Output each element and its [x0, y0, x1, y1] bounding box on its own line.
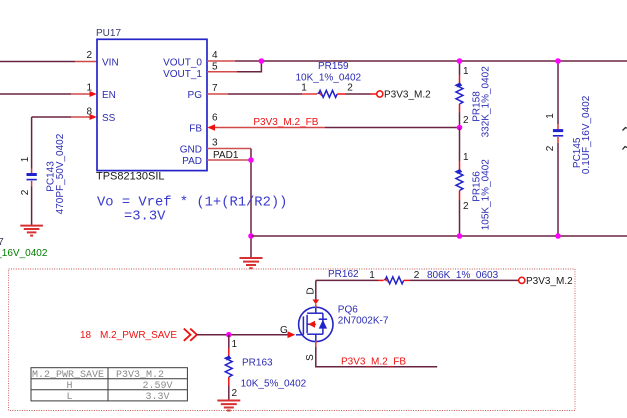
svg-text:3: 3 [212, 138, 218, 149]
wire PR162 to net circle [410, 279, 519, 281]
svg-text:P3V3_M.2: P3V3_M.2 [384, 90, 431, 101]
svg-text:8: 8 [86, 107, 92, 118]
svg-text:806K_1%_0603: 806K_1%_0603 [427, 270, 499, 281]
svg-text:1: 1 [369, 270, 375, 281]
capacitor PC145 [553, 124, 563, 143]
svg-text:Vo = Vref * (1+(R1/R2)): Vo = Vref * (1+(R1/R2)) [97, 195, 287, 211]
svg-text:1: 1 [463, 152, 469, 163]
pin arrow FB pin 6 [207, 124, 215, 131]
svg-text:1: 1 [463, 66, 469, 77]
svg-text:P3V3_M.2: P3V3_M.2 [116, 370, 164, 381]
wire VOUT_1 to rail [237, 61, 261, 72]
resistor PR159 [302, 90, 346, 97]
svg-text:VOUT_1: VOUT_1 [163, 69, 202, 80]
svg-text:10K_1%_0402: 10K_1%_0402 [296, 73, 362, 84]
svg-text:=3.3V: =3.3V [124, 210, 166, 225]
wire gate net [197, 334, 288, 336]
wire FB net [218, 127, 326, 129]
svg-text:L: L [66, 392, 72, 403]
svg-text:2: 2 [86, 50, 92, 61]
pin stub GND pin 3 [207, 148, 251, 150]
svg-text:-7: -7 [0, 237, 4, 248]
wire PR158 top lead [459, 61, 461, 75]
wire PR159 to net stub [346, 93, 371, 95]
svg-text:D: D [306, 287, 317, 294]
svg-text:EN: EN [102, 90, 116, 101]
svg-text:2N7002K-7: 2N7002K-7 [338, 316, 389, 327]
junction bottom rail PR156 [457, 233, 463, 239]
svg-text:M.2_PWR_SAVE: M.2_PWR_SAVE [32, 370, 104, 381]
svg-text:3.3V: 3.3V [145, 392, 169, 403]
svg-text:VOUT_0: VOUT_0 [163, 57, 202, 68]
pin stub PAD [207, 159, 251, 161]
svg-text:2: 2 [20, 189, 31, 195]
wire PR156 bottom to rail [459, 200, 461, 236]
pin arrow EN pin 1 [90, 91, 97, 97]
junction bottom rail at x=251 [248, 233, 254, 239]
svg-text:2: 2 [414, 270, 420, 281]
wire SS vertical down to PC143 [31, 117, 33, 169]
svg-text:1: 1 [86, 83, 92, 94]
svg-text:VIN: VIN [102, 57, 119, 68]
svg-text:SS: SS [102, 113, 116, 124]
svg-text:2: 2 [463, 201, 469, 212]
svg-text:TPS82130SIL: TPS82130SIL [96, 171, 165, 183]
svg-text:470PF_50V_0402: 470PF_50V_0402 [55, 133, 66, 214]
IC U PU17 box [97, 39, 207, 170]
junction gate / PR163 [226, 332, 232, 338]
resistor PR158 [456, 82, 463, 113]
net connector circle P3V3_M.2 [377, 91, 383, 97]
svg-text:2.59V: 2.59V [142, 381, 172, 392]
svg-text:2: 2 [347, 83, 353, 94]
svg-text:PAD1: PAD1 [213, 150, 239, 161]
ground symbol (PR163) [217, 401, 240, 411]
svg-text:GND: GND [180, 144, 202, 155]
junction VOUT_0/VOUT_1 [259, 58, 265, 64]
svg-text:G: G [280, 325, 288, 336]
net connector circle P3V3_M.2 (bottom) [519, 277, 525, 283]
svg-text:1: 1 [20, 156, 31, 162]
wire PR156 top lead [459, 128, 461, 162]
svg-text:S: S [305, 354, 316, 361]
resistor PR162 [378, 277, 410, 284]
truth table [31, 368, 187, 401]
wire PC145 bottom to rail [557, 143, 559, 236]
gate arrow into Q [288, 331, 296, 338]
wire PC143 to ground [31, 187, 33, 226]
svg-text:6: 6 [212, 113, 218, 124]
svg-text:10K_5%_0402: 10K_5%_0402 [241, 379, 307, 390]
svg-text:1: 1 [545, 113, 556, 119]
svg-text:P3V3_M.2_FB: P3V3_M.2_FB [341, 357, 406, 368]
svg-text:18: 18 [80, 330, 92, 341]
svg-text:332K_1%_0402: 332K_1%_0402 [481, 66, 492, 138]
cut-off pin number 1 (right edge) [623, 128, 627, 131]
junction PAD [248, 157, 254, 163]
wire drain to PR162 [316, 279, 378, 281]
svg-text:P3V3_M.2: P3V3_M.2 [526, 276, 573, 287]
pin stub PG pin 7 [207, 93, 228, 95]
pin stub VOUT_0 pin 4 [207, 60, 235, 62]
resistor PR156 [456, 169, 463, 201]
wire PR163 bottom to ground [228, 386, 230, 401]
svg-text:PR163: PR163 [242, 358, 273, 369]
svg-text:PU17: PU17 [96, 28, 121, 39]
junction top rail PC145 [555, 58, 561, 64]
svg-text:PQ6: PQ6 [338, 304, 358, 315]
capacitor C PC143 [27, 169, 37, 187]
junction FB / PR158 / PR156 [457, 125, 463, 131]
resistor PR163 [225, 355, 232, 386]
svg-text:0.1UF_16V_0402: 0.1UF_16V_0402 [0, 248, 48, 259]
wire PG to PR159 [228, 93, 302, 95]
svg-text:FB: FB [189, 123, 202, 134]
wire EN net from left edge [0, 93, 71, 95]
svg-text:4: 4 [212, 50, 218, 61]
svg-text:M.2_PWR_SAVE: M.2_PWR_SAVE [100, 330, 177, 341]
wire GND/PAD vertical to ground [250, 149, 252, 259]
wire drain vertical [315, 280, 317, 299]
wire SS net horizontal [32, 116, 71, 118]
svg-text:2: 2 [232, 388, 238, 399]
drain arrow down [312, 300, 319, 305]
svg-text:PR159: PR159 [318, 61, 349, 72]
transistor PQ6 2N7002K-7 [296, 307, 333, 341]
wire PR158 bottom to FB junction [459, 113, 461, 128]
wire PR163 top lead [228, 335, 230, 348]
svg-text:5: 5 [212, 62, 218, 73]
wire bottom rail [251, 235, 627, 237]
pin arrow SS pin 8 [90, 114, 97, 120]
port chevron >> [184, 329, 197, 341]
junction top rail PR158 [457, 58, 463, 64]
pin stub VIN pin 2 [75, 61, 97, 63]
wire source vertical [315, 341, 317, 347]
svg-text:H: H [66, 381, 72, 392]
cut-off pin number 2 (right edge) [623, 147, 627, 150]
junction bottom rail PC145 [555, 233, 561, 239]
wire VIN net from left edge [0, 61, 75, 63]
svg-text:1: 1 [301, 83, 307, 94]
svg-text:2: 2 [545, 145, 556, 151]
svg-text:2: 2 [463, 115, 469, 126]
svg-text:1: 1 [232, 339, 238, 350]
svg-text:PG: PG [188, 90, 203, 101]
svg-text:P3V3_M.2_FB: P3V3_M.2_FB [253, 117, 318, 128]
svg-text:PR162: PR162 [328, 269, 359, 280]
wire PC145 top lead [557, 61, 559, 124]
svg-text:105K_1%_0402: 105K_1%_0402 [481, 159, 492, 231]
ground symbol (PC143) [20, 226, 43, 236]
wire VOUT top rail [235, 60, 627, 62]
svg-text:PAD: PAD [182, 156, 202, 167]
pin stub VOUT_1 pin 5 [207, 71, 237, 73]
svg-text:7: 7 [212, 83, 218, 94]
ground symbol (main) [240, 258, 263, 268]
dotted section border [9, 269, 575, 411]
svg-text:0.1UF_16V_0402: 0.1UF_16V_0402 [581, 95, 592, 174]
